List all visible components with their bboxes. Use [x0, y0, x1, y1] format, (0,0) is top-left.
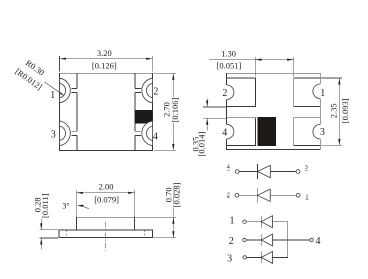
svg-text:3°: 3°: [62, 201, 69, 210]
diode D3: [260, 216, 262, 227]
svg-text:[0.106]: [0.106]: [170, 97, 180, 122]
dimension 3.20: [60, 48, 153, 72]
wire: [246, 256, 261, 258]
svg-text:3: 3: [227, 253, 232, 264]
svg-text:[0.079]: [0.079]: [94, 195, 119, 205]
svg-text:2.35: 2.35: [329, 103, 339, 118]
side view hidden line right: [144, 230, 146, 238]
svg-text:[0.011]: [0.011]: [40, 193, 50, 218]
terminal 4 circle: [310, 238, 313, 241]
svg-text:3: 3: [305, 164, 308, 171]
bottom view pad 3 (bottom-right): [294, 118, 321, 146]
wire: [270, 194, 296, 196]
wire: [239, 194, 257, 196]
side view raised body: [76, 217, 134, 230]
dimension 2.00: [76, 181, 134, 217]
dimension 0.28: [32, 193, 58, 249]
diode D4: [260, 234, 262, 245]
diode D2: [256, 188, 258, 203]
svg-text:2.00: 2.00: [99, 181, 114, 191]
svg-text:[0.126]: [0.126]: [92, 61, 117, 71]
notch pad 2: [225, 85, 233, 100]
top view inner terminal line right: [134, 73, 136, 150]
terminal 4 circle: [235, 170, 239, 174]
diode D5: [260, 252, 262, 263]
wire: [239, 171, 257, 173]
svg-text:4: 4: [153, 132, 158, 143]
notch pad 3: [313, 124, 321, 139]
side view centerline: [105, 222, 107, 251]
pad 3 neck: [71, 131, 77, 135]
svg-text:4: 4: [222, 127, 227, 138]
top view cathode mark: [135, 110, 153, 124]
draft angle callout 3deg: [62, 201, 89, 210]
dimension 2.70: [155, 73, 181, 150]
svg-text:[0.014]: [0.014]: [197, 131, 207, 156]
svg-text:3: 3: [320, 127, 325, 138]
schematic D2 (2 to 1): [227, 188, 309, 203]
dimension 0.70: [136, 182, 182, 237]
bottom view pad 4 (bottom-left): [227, 118, 256, 146]
notch pad 1: [313, 84, 321, 99]
pin 3 circle: [243, 256, 246, 259]
dimension 0.35: [191, 99, 226, 157]
svg-text:1: 1: [230, 215, 235, 226]
pad 1 neck: [71, 88, 77, 92]
svg-text:2: 2: [227, 191, 230, 198]
svg-text:2: 2: [222, 88, 227, 99]
wire to terminal 4: [273, 239, 310, 241]
svg-text:3: 3: [51, 130, 56, 141]
pin 1 circle: [243, 220, 246, 223]
svg-text:3.20: 3.20: [97, 48, 112, 58]
notch pad 4: [225, 124, 234, 139]
wire: [270, 171, 296, 173]
svg-text:2: 2: [229, 236, 234, 247]
wire: [246, 239, 261, 241]
pad 1 arcs: [60, 78, 71, 103]
dimension 2.35: [321, 78, 350, 145]
terminal 2 circle: [235, 193, 239, 197]
side view hidden line left: [65, 230, 67, 238]
radius callout R0.30: [13, 58, 64, 96]
svg-text:1: 1: [305, 194, 308, 201]
schematic common-anode array: [227, 215, 320, 264]
bottom view pad 2 (top-left): [227, 78, 256, 106]
terminal 1 circle: [296, 193, 300, 197]
svg-text:4: 4: [316, 236, 321, 247]
dimension 1.30: [209, 49, 294, 77]
svg-text:1: 1: [50, 90, 55, 101]
svg-text:[0.028]: [0.028]: [172, 182, 182, 207]
pin 2 circle: [243, 238, 246, 241]
bus wire: [287, 240, 289, 257]
top view body: [60, 73, 153, 150]
wire to bus: [273, 222, 288, 240]
pad 2 neck: [135, 88, 141, 92]
svg-text:1: 1: [320, 88, 325, 99]
pad 3 arcs: [60, 121, 71, 146]
bottom view pad 1 (top-right): [294, 78, 321, 106]
diode D1: [257, 164, 259, 179]
schematic D1 (4 to 3): [227, 164, 308, 180]
wire: [246, 221, 261, 223]
pad 2 arcs: [142, 78, 153, 103]
side view base plate: [59, 230, 153, 238]
svg-text:[0.093]: [0.093]: [340, 98, 350, 123]
top view inner terminal line left: [76, 73, 78, 150]
pad 4 arcs: [142, 121, 153, 146]
bottom view cathode mark: [257, 117, 276, 146]
bottom view body: [227, 73, 321, 149]
terminal 3 circle: [296, 170, 300, 174]
svg-text:2: 2: [153, 87, 158, 98]
pad 4 neck: [135, 131, 141, 135]
svg-text:[0.051]: [0.051]: [217, 61, 242, 71]
wire to bus: [273, 256, 288, 258]
svg-text:1.30: 1.30: [221, 49, 236, 59]
